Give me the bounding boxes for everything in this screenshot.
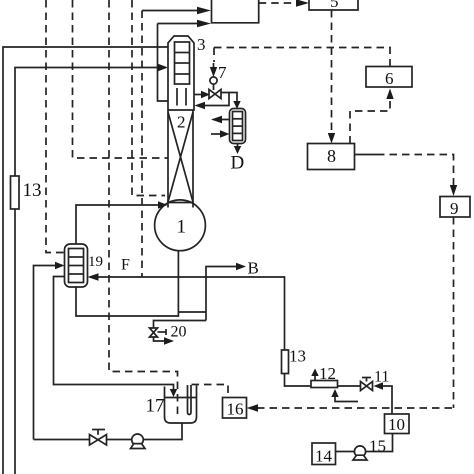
svg-text:20: 20: [171, 324, 187, 341]
vessel 3 internal downcomers: [176, 88, 178, 106]
svg-text:17: 17: [146, 396, 165, 417]
svg-text:10: 10: [388, 415, 405, 434]
wire into box 4 lower: [158, 23, 199, 25]
wire with component 13a into vessel 3: [15, 68, 159, 474]
box 6: [366, 67, 412, 88]
svg-text:15: 15: [369, 437, 386, 456]
wire from far left into vessel 3 top: [3, 47, 168, 474]
dashed wire box 9 down right side: [453, 217, 455, 408]
wire tank 17 bottom to pump line: [34, 423, 183, 440]
wire box 14 to pump 15: [336, 451, 355, 453]
wire return into vessel 3 right: [205, 93, 229, 106]
dashed control wire horizontal y=47.5 to box 6: [214, 48, 390, 67]
svg-text:9: 9: [450, 199, 459, 218]
unit 12 bottom feed arrow: [335, 396, 358, 402]
valve 7 body: [209, 90, 215, 99]
unit 19 body: [65, 244, 88, 287]
vessel 3 internal tray stack: [175, 42, 190, 84]
svg-text:6: 6: [385, 69, 394, 88]
vessel 3 body: [168, 36, 194, 110]
dashed control wire box5 down to box 8: [331, 10, 333, 134]
svg-text:11: 11: [374, 369, 389, 386]
wire long return into 19 right: [98, 277, 285, 350]
wire exchanger D bottoms arrow: [237, 144, 239, 148]
svg-text:2: 2: [177, 113, 186, 132]
valve 20 body: [150, 328, 158, 333]
box 14: [312, 443, 336, 465]
wire B branch: [206, 267, 237, 321]
tank 17 liquid level: [165, 397, 197, 399]
wire pump 15 to box 10: [366, 434, 393, 452]
box 8: [308, 144, 355, 170]
svg-text:7: 7: [218, 63, 227, 82]
valve 11 body: [361, 382, 367, 391]
box 16: [223, 398, 247, 419]
dashed wire dip tube to box 16: [192, 385, 229, 398]
flask 1: [155, 200, 206, 251]
box 5 (top, cropped): [309, 0, 358, 10]
svg-text:B: B: [248, 259, 259, 278]
tank 17 dip tube: [188, 385, 192, 415]
wire unit 12 to valve 11: [338, 385, 361, 387]
valve (bottom left) body: [90, 435, 99, 446]
component 13a restrictor: [11, 176, 20, 209]
wire 13b down to unit 12: [285, 374, 312, 387]
wire into box 4 upper: [142, 10, 198, 12]
svg-text:8: 8: [327, 146, 336, 166]
box 9: [440, 197, 470, 218]
component 13b restrictor: [282, 350, 289, 374]
pump (bottom left): [132, 434, 144, 446]
dashed wire a into column left y158: [73, 0, 168, 158]
dashed control wire down to valve 7: [213, 48, 215, 63]
dashed wire box 8 to box 6: [350, 99, 390, 144]
dashed wire from box4 corner down to node line: [141, 11, 143, 277]
svg-text:13: 13: [23, 180, 42, 201]
unit 12 top arrow: [314, 375, 316, 381]
dashed wire right side to box 16: [257, 407, 454, 409]
svg-text:5: 5: [330, 0, 339, 11]
column 2: [167, 110, 169, 208]
wire box 8 output to box 9: [355, 154, 378, 156]
svg-text:F: F: [121, 257, 130, 274]
wire feed from 19 top to flask neck: [76, 205, 159, 244]
dashed wire box 4 to box 5: [259, 2, 297, 4]
svg-text:12: 12: [319, 364, 336, 383]
wire seal-leg from vessel 3 left wall: [158, 24, 169, 102]
svg-text:19: 19: [88, 254, 103, 270]
wire vessel3 to valve 7: [194, 94, 202, 96]
wire valve 7 to exchanger D: [221, 93, 237, 103]
wire exchanger D coolant out: [213, 119, 230, 121]
svg-text:3: 3: [197, 35, 206, 54]
svg-text:13: 13: [289, 347, 306, 366]
pump 15: [354, 446, 365, 457]
wire valve 11 to box 10: [374, 382, 384, 390]
svg-text:1: 1: [177, 217, 187, 238]
wire exchanger D coolant in: [211, 133, 221, 135]
box 4 (top, cropped): [212, 0, 259, 23]
wire pump riser into 19 left: [34, 266, 57, 440]
svg-text:D: D: [231, 153, 245, 174]
unit 12 body: [311, 381, 338, 388]
dashed wire b into column left y195: [132, 0, 165, 196]
wire valve 20 drain arrow: [154, 337, 166, 341]
svg-text:16: 16: [227, 400, 244, 419]
tank 17 body: [165, 386, 197, 424]
wire 19 bottom to flask stem: [76, 251, 178, 316]
dashed wire d into tank 17: [109, 0, 178, 419]
wire to valve 20: [154, 321, 207, 329]
svg-text:14: 14: [315, 447, 333, 466]
valve 7 actuator circle: [210, 77, 217, 84]
box 10: [385, 414, 410, 434]
wire 19 lower-left to tank 17: [54, 277, 174, 391]
dashed wire c into unit 19: [46, 0, 65, 253]
exchanger D body: [230, 109, 246, 144]
